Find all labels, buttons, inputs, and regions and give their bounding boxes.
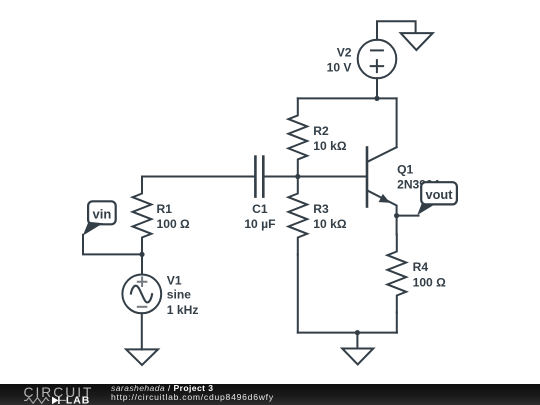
svg-text:sine: sine xyxy=(167,288,191,302)
wire bottom rail xyxy=(298,332,397,334)
resistor R4 xyxy=(387,235,406,313)
svg-text:10 kΩ: 10 kΩ xyxy=(313,139,347,153)
voltage source V2 xyxy=(358,40,397,79)
node vin junction xyxy=(139,252,144,257)
wire top rail xyxy=(298,97,397,99)
wire emitter to vout xyxy=(397,215,419,217)
flag vout xyxy=(417,182,457,215)
node bottom rail junction xyxy=(355,330,360,335)
label C1 value xyxy=(244,202,275,231)
svg-text:C1: C1 xyxy=(252,202,268,216)
wire vin xyxy=(83,235,142,255)
wire R4 bottom xyxy=(396,313,398,333)
svg-text:1 kHz: 1 kHz xyxy=(167,303,199,317)
svg-text:R1: R1 xyxy=(157,202,173,216)
ground G2 xyxy=(342,333,373,365)
footer project text xyxy=(111,384,213,393)
svg-text:V1: V1 xyxy=(167,273,182,287)
capacitor C1 xyxy=(255,157,263,197)
wire collector drop xyxy=(396,98,398,147)
label R4 value xyxy=(413,260,447,290)
label R3 value xyxy=(313,202,347,231)
wire C1 left xyxy=(142,176,254,178)
node emitter junction xyxy=(394,213,399,218)
logo CircuitLab xyxy=(0,384,100,405)
svg-text:LAB: LAB xyxy=(66,395,90,405)
ground G3 xyxy=(401,33,433,50)
label V1 value xyxy=(167,273,199,317)
label R2 value xyxy=(313,124,347,153)
node base rail junction xyxy=(295,174,300,179)
wire V2 top to ground xyxy=(377,21,416,40)
svg-text:V2: V2 xyxy=(337,46,352,60)
voltage source V1 xyxy=(122,275,161,314)
resistor R3 xyxy=(288,177,307,255)
resistor R2 xyxy=(288,98,307,176)
svg-text:vout: vout xyxy=(425,187,453,202)
wire R3 bottom xyxy=(297,255,299,333)
wire V1 bottom xyxy=(141,313,143,349)
wire V2 bottom to top rail xyxy=(376,78,378,98)
svg-text:10 V: 10 V xyxy=(327,60,352,74)
wire V1 top xyxy=(141,254,143,274)
svg-text:10 µF: 10 µF xyxy=(244,217,275,231)
label V2 value xyxy=(327,46,352,75)
svg-text:100 Ω: 100 Ω xyxy=(413,276,447,290)
label Q1 type xyxy=(397,163,440,192)
svg-text:vin: vin xyxy=(93,207,112,222)
svg-text:10 kΩ: 10 kΩ xyxy=(313,217,347,231)
svg-text:Q1: Q1 xyxy=(397,163,413,177)
svg-text:R4: R4 xyxy=(413,260,429,274)
label R1 value xyxy=(157,202,191,231)
wire base rail xyxy=(263,176,367,178)
wire emitter to R4 xyxy=(396,216,398,235)
transistor Q1 xyxy=(367,147,397,215)
svg-text:R2: R2 xyxy=(313,124,329,138)
svg-text:R3: R3 xyxy=(313,202,329,216)
node top rail junction xyxy=(374,96,379,101)
footer bar xyxy=(0,384,540,405)
footer url text xyxy=(111,393,274,402)
svg-text:100 Ω: 100 Ω xyxy=(157,217,191,231)
resistor R1 xyxy=(133,177,152,255)
ground G1 xyxy=(126,349,158,365)
flag vin xyxy=(83,201,116,235)
